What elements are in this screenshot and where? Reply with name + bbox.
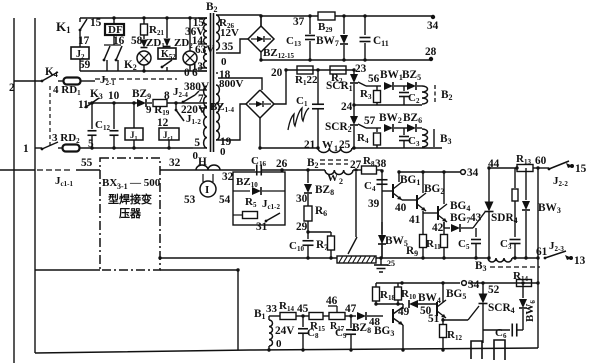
svg-text:31: 31 — [256, 221, 268, 233]
terminal 28 — [429, 57, 433, 61]
wire DC- rail to terminal 28 — [260, 52, 262, 60]
wire to box — [76, 169, 100, 171]
transformer core — [210, 13, 212, 152]
svg-text:0: 0 — [276, 338, 282, 350]
svg-text:12: 12 — [157, 117, 169, 129]
wire cathode rail y148 — [260, 147, 318, 149]
diode BZ9 — [137, 99, 146, 107]
capacitor C11 — [364, 16, 366, 35]
svg-text:W: W — [327, 172, 338, 184]
svg-text:1: 1 — [334, 144, 338, 153]
transistor BG5 — [436, 302, 438, 316]
thyristor SCR1 — [353, 70, 355, 75]
tap 35 — [216, 52, 228, 54]
svg-text:10: 10 — [108, 90, 120, 102]
resistor R7 — [308, 231, 331, 233]
svg-text:47: 47 — [345, 303, 357, 315]
bridge rectifier BZ1-4 — [246, 90, 274, 118]
resistor R11 — [443, 222, 445, 234]
svg-text:45: 45 — [297, 303, 309, 315]
svg-text:800V: 800V — [219, 78, 244, 90]
wire bridge minus — [259, 118, 261, 148]
winding taps left upper — [198, 17, 207, 19]
relay coil Jc1 — [159, 128, 179, 140]
svg-text:37: 37 — [293, 16, 305, 28]
rheostat (hatched) — [337, 256, 376, 263]
svg-text:11: 11 — [78, 99, 89, 111]
svg-text:15: 15 — [90, 17, 102, 29]
resistor R9 — [422, 211, 424, 234]
svg-text:60: 60 — [535, 155, 547, 167]
relay coil J2 — [71, 47, 89, 59]
capacitor C16 — [256, 165, 258, 176]
resistor R10 — [397, 283, 399, 287]
wire box bottom left — [35, 269, 100, 271]
contact K2 pair — [113, 35, 115, 45]
svg-text:W: W — [322, 139, 333, 151]
svg-text:12V: 12V — [220, 27, 239, 39]
resistor R19 — [147, 102, 152, 104]
svg-text:25: 25 — [387, 259, 395, 268]
svg-text:40: 40 — [395, 202, 407, 214]
junction dots — [352, 68, 355, 71]
svg-text:54: 54 — [219, 194, 231, 206]
wire down to B1 — [237, 270, 239, 350]
svg-text:53: 53 — [184, 194, 196, 206]
svg-text:34: 34 — [467, 167, 479, 179]
switch on line 1 — [42, 142, 58, 149]
capacitor C2 — [403, 86, 405, 91]
svg-text:23: 23 — [355, 63, 367, 75]
transistor BG1 — [382, 190, 393, 192]
svg-text:61: 61 — [536, 246, 548, 258]
svg-text:56: 56 — [368, 73, 380, 85]
svg-text:8: 8 — [164, 90, 170, 102]
resistor R12 — [442, 320, 444, 324]
zener BW5 — [381, 222, 383, 234]
signal lamp 1 — [137, 51, 151, 65]
diode BW2 — [384, 124, 393, 132]
diode BW1 — [384, 82, 393, 90]
svg-text:R122: R122 — [295, 74, 318, 87]
svg-text:6: 6 — [192, 67, 198, 79]
bridge rectifier BZ12-15 — [248, 26, 274, 52]
gate row 1 — [366, 85, 381, 87]
pulse transformer B2 gate winding — [422, 86, 428, 104]
resistor R3 — [376, 86, 378, 90]
svg-text:型焊接变: 型焊接变 — [108, 192, 152, 206]
zener BW7 — [343, 16, 345, 34]
svg-text:32: 32 — [169, 157, 181, 169]
svg-text:38: 38 — [375, 158, 387, 170]
gate return row 1 — [354, 104, 422, 106]
wire row y304 — [376, 303, 403, 305]
svg-text:34: 34 — [427, 20, 439, 32]
wire row y168 right — [489, 167, 517, 169]
transistor BG3 — [392, 309, 394, 323]
wire phase line 1 (second vertical) — [34, 18, 36, 353]
svg-text:33: 33 — [266, 303, 278, 315]
contact J2-1 (dashed) — [95, 78, 177, 80]
zener BZ8 column — [307, 170, 309, 183]
thyristor SDR4 — [488, 168, 490, 202]
wire box to current transformer — [160, 169, 255, 171]
svg-text:0: 0 — [220, 146, 226, 158]
transistor BG2 — [416, 195, 418, 209]
ammeter I — [202, 174, 204, 182]
svg-text:58: 58 — [131, 35, 143, 47]
winding W1 — [318, 148, 352, 153]
capacitor 2 — [113, 103, 115, 129]
switch K4 — [42, 72, 58, 81]
svg-text:25: 25 — [339, 139, 351, 151]
diode BZ6 — [394, 127, 407, 129]
wire DC+ rail to terminal 34 — [260, 15, 262, 26]
tap 0 6 — [198, 70, 207, 72]
resistor R6 — [307, 194, 309, 206]
svg-text:57: 57 — [364, 115, 376, 127]
wire gate to SDR4 — [461, 227, 473, 229]
primary winding 380/220 section — [204, 86, 207, 148]
svg-text:24: 24 — [341, 101, 353, 113]
ground symbol — [380, 258, 382, 265]
contact J1-2 — [175, 103, 177, 110]
svg-text:28: 28 — [425, 46, 437, 58]
rheostat wiper from node 27 — [355, 172, 357, 237]
svg-text:220V: 220V — [181, 104, 207, 116]
signal lamp 2 — [189, 18, 191, 51]
svg-text:34: 34 — [468, 279, 480, 291]
wire bridge to DC bus 20 — [274, 70, 286, 104]
resistor R1 node 22 — [297, 66, 313, 74]
SCR1 gate wire — [358, 82, 366, 86]
svg-text:63V: 63V — [195, 44, 215, 56]
svg-text:3-1: 3-1 — [117, 182, 128, 191]
filter capacitor — [317, 70, 319, 104]
switch J2-2 to terminal 15 — [549, 161, 569, 169]
svg-text:29: 29 — [296, 221, 308, 233]
diode BG7 node 43 — [443, 222, 445, 228]
resistor B29 — [318, 12, 335, 20]
relay K1 branch — [79, 18, 81, 22]
diode BZ5 — [394, 85, 407, 87]
svg-text:30: 30 — [296, 193, 308, 205]
svg-text:59: 59 — [79, 59, 91, 71]
thyristor SCR2 — [353, 113, 355, 117]
capacitor C10 — [303, 240, 314, 242]
zener ZD1 — [143, 35, 145, 39]
SCR2 gate wire — [358, 124, 366, 128]
resistor R18 — [375, 283, 377, 287]
control common rail — [160, 257, 337, 259]
wire output to electrodes — [0, 169, 35, 171]
capacitor C8 — [302, 316, 304, 327]
svg-text:13: 13 — [574, 255, 586, 267]
svg-text:46: 46 — [326, 295, 338, 307]
primary winding upper (36V section) — [204, 18, 207, 44]
svg-text:15: 15 — [575, 163, 587, 175]
relay box K52 — [158, 48, 176, 59]
tap wires 380/220 — [199, 89, 207, 91]
zener BW3 column — [525, 168, 527, 200]
resistor R14 right — [517, 280, 532, 287]
gate row 2 — [366, 127, 381, 129]
svg-text:24V: 24V — [275, 325, 295, 337]
capacitor C4 — [377, 179, 388, 181]
svg-text:35: 35 — [222, 41, 234, 53]
svg-text:1: 1 — [23, 143, 29, 155]
svg-text:48: 48 — [369, 316, 381, 328]
fuse RD2 — [58, 147, 63, 149]
wire box bottom right — [160, 269, 238, 271]
column x539 node 60 to 61 — [537, 168, 539, 348]
resistor R13 — [517, 165, 533, 172]
resistor R15 — [309, 313, 323, 320]
svg-text:压器: 压器 — [119, 206, 142, 220]
svg-text:0: 0 — [184, 67, 190, 79]
svg-text:42: 42 — [432, 222, 444, 234]
thyristor SCR4 — [482, 283, 484, 294]
capacitor C13 — [309, 16, 311, 34]
secondary 800V winding — [216, 85, 219, 140]
svg-text:16: 16 — [113, 35, 125, 47]
capacitor C12 — [91, 103, 93, 129]
pulse transformer B3 gate winding — [422, 129, 428, 147]
zener BW6 vertical — [522, 283, 524, 298]
svg-text:52: 52 — [488, 284, 500, 296]
svg-text:3 RD2: 3 RD2 — [52, 132, 80, 145]
svg-text:32: 32 — [222, 171, 234, 183]
resistor R2 — [330, 66, 346, 74]
svg-text:49: 49 — [398, 306, 410, 318]
capacitor C5 — [475, 228, 477, 237]
svg-text:BX: BX — [102, 177, 117, 189]
svg-text:0: 0 — [221, 56, 227, 68]
svg-text:26: 26 — [276, 158, 288, 170]
pulse output glyph — [471, 341, 482, 359]
resistor R4 — [376, 128, 378, 132]
zener ZD2 — [166, 18, 168, 38]
wire 800V taps to bridge — [218, 78, 262, 90]
potentiometer R17 node 46 — [329, 313, 345, 320]
wire column x382 — [381, 170, 383, 258]
svg-text:21: 21 — [304, 139, 316, 151]
svg-text:— 500: — 500 — [129, 177, 161, 189]
terminal 34 top — [431, 15, 435, 19]
wire row 10 — [88, 102, 137, 104]
welding transformer box BX3-1-500 (dash-dot) — [100, 158, 160, 270]
secondary 12V winding — [216, 15, 219, 50]
svg-text:5: 5 — [194, 137, 200, 149]
pulse transformer B3 primary — [488, 258, 512, 262]
feedback box BZ10 — [233, 172, 285, 225]
supply rail y283 with terminal 34 — [376, 282, 460, 284]
svg-text:4 RD1: 4 RD1 — [53, 84, 81, 97]
resistor R14 left — [280, 313, 296, 320]
svg-text:380V: 380V — [184, 81, 210, 93]
bottom rail — [35, 348, 538, 353]
svg-text:2: 2 — [339, 177, 343, 186]
svg-text:17: 17 — [78, 35, 90, 47]
diode BW4 — [409, 300, 418, 308]
emitter to gate wire — [442, 318, 444, 320]
wire phase line 2 (left vertical) — [13, 18, 15, 363]
svg-text:2: 2 — [9, 82, 15, 94]
switch J2-3 to terminal 13 — [545, 251, 566, 258]
wire bottom rail (node 6) — [80, 70, 207, 72]
contact Jc1-1 dashed — [37, 169, 70, 171]
svg-text:20: 20 — [271, 67, 283, 79]
wire top rail (node 15) — [80, 17, 207, 19]
svg-text:39: 39 — [368, 198, 380, 210]
fuse RD1 — [58, 80, 63, 82]
transistor BG4 — [423, 212, 438, 214]
svg-text:I: I — [205, 184, 209, 196]
svg-text:55: 55 — [81, 157, 93, 169]
column x515 with C3 — [514, 168, 516, 188]
wire row y312 — [269, 315, 280, 317]
primary winding 63V section — [204, 47, 207, 68]
relay coil J1 — [133, 103, 135, 128]
winding W2 — [325, 170, 353, 175]
capacitor C6 — [483, 329, 510, 331]
svg-text:41: 41 — [409, 214, 421, 226]
supply rail to terminal 34 mid — [399, 171, 460, 173]
mechanical link dashes — [49, 86, 51, 145]
capacitor C3 gate — [403, 128, 405, 135]
wire DC bus y70 — [286, 69, 354, 71]
time relay DF box — [113, 18, 115, 24]
capacitor C9 — [350, 316, 352, 328]
switch K1 — [80, 19, 87, 30]
wire row to K4 — [14, 80, 42, 82]
wire 12V to bridge — [216, 14, 261, 16]
rail continues — [376, 257, 488, 259]
diode BZ10 inside — [233, 190, 250, 192]
resistor R8 node 38 — [353, 169, 361, 171]
diode BZ8 bottom — [357, 312, 366, 320]
resistor R21 — [143, 18, 145, 24]
